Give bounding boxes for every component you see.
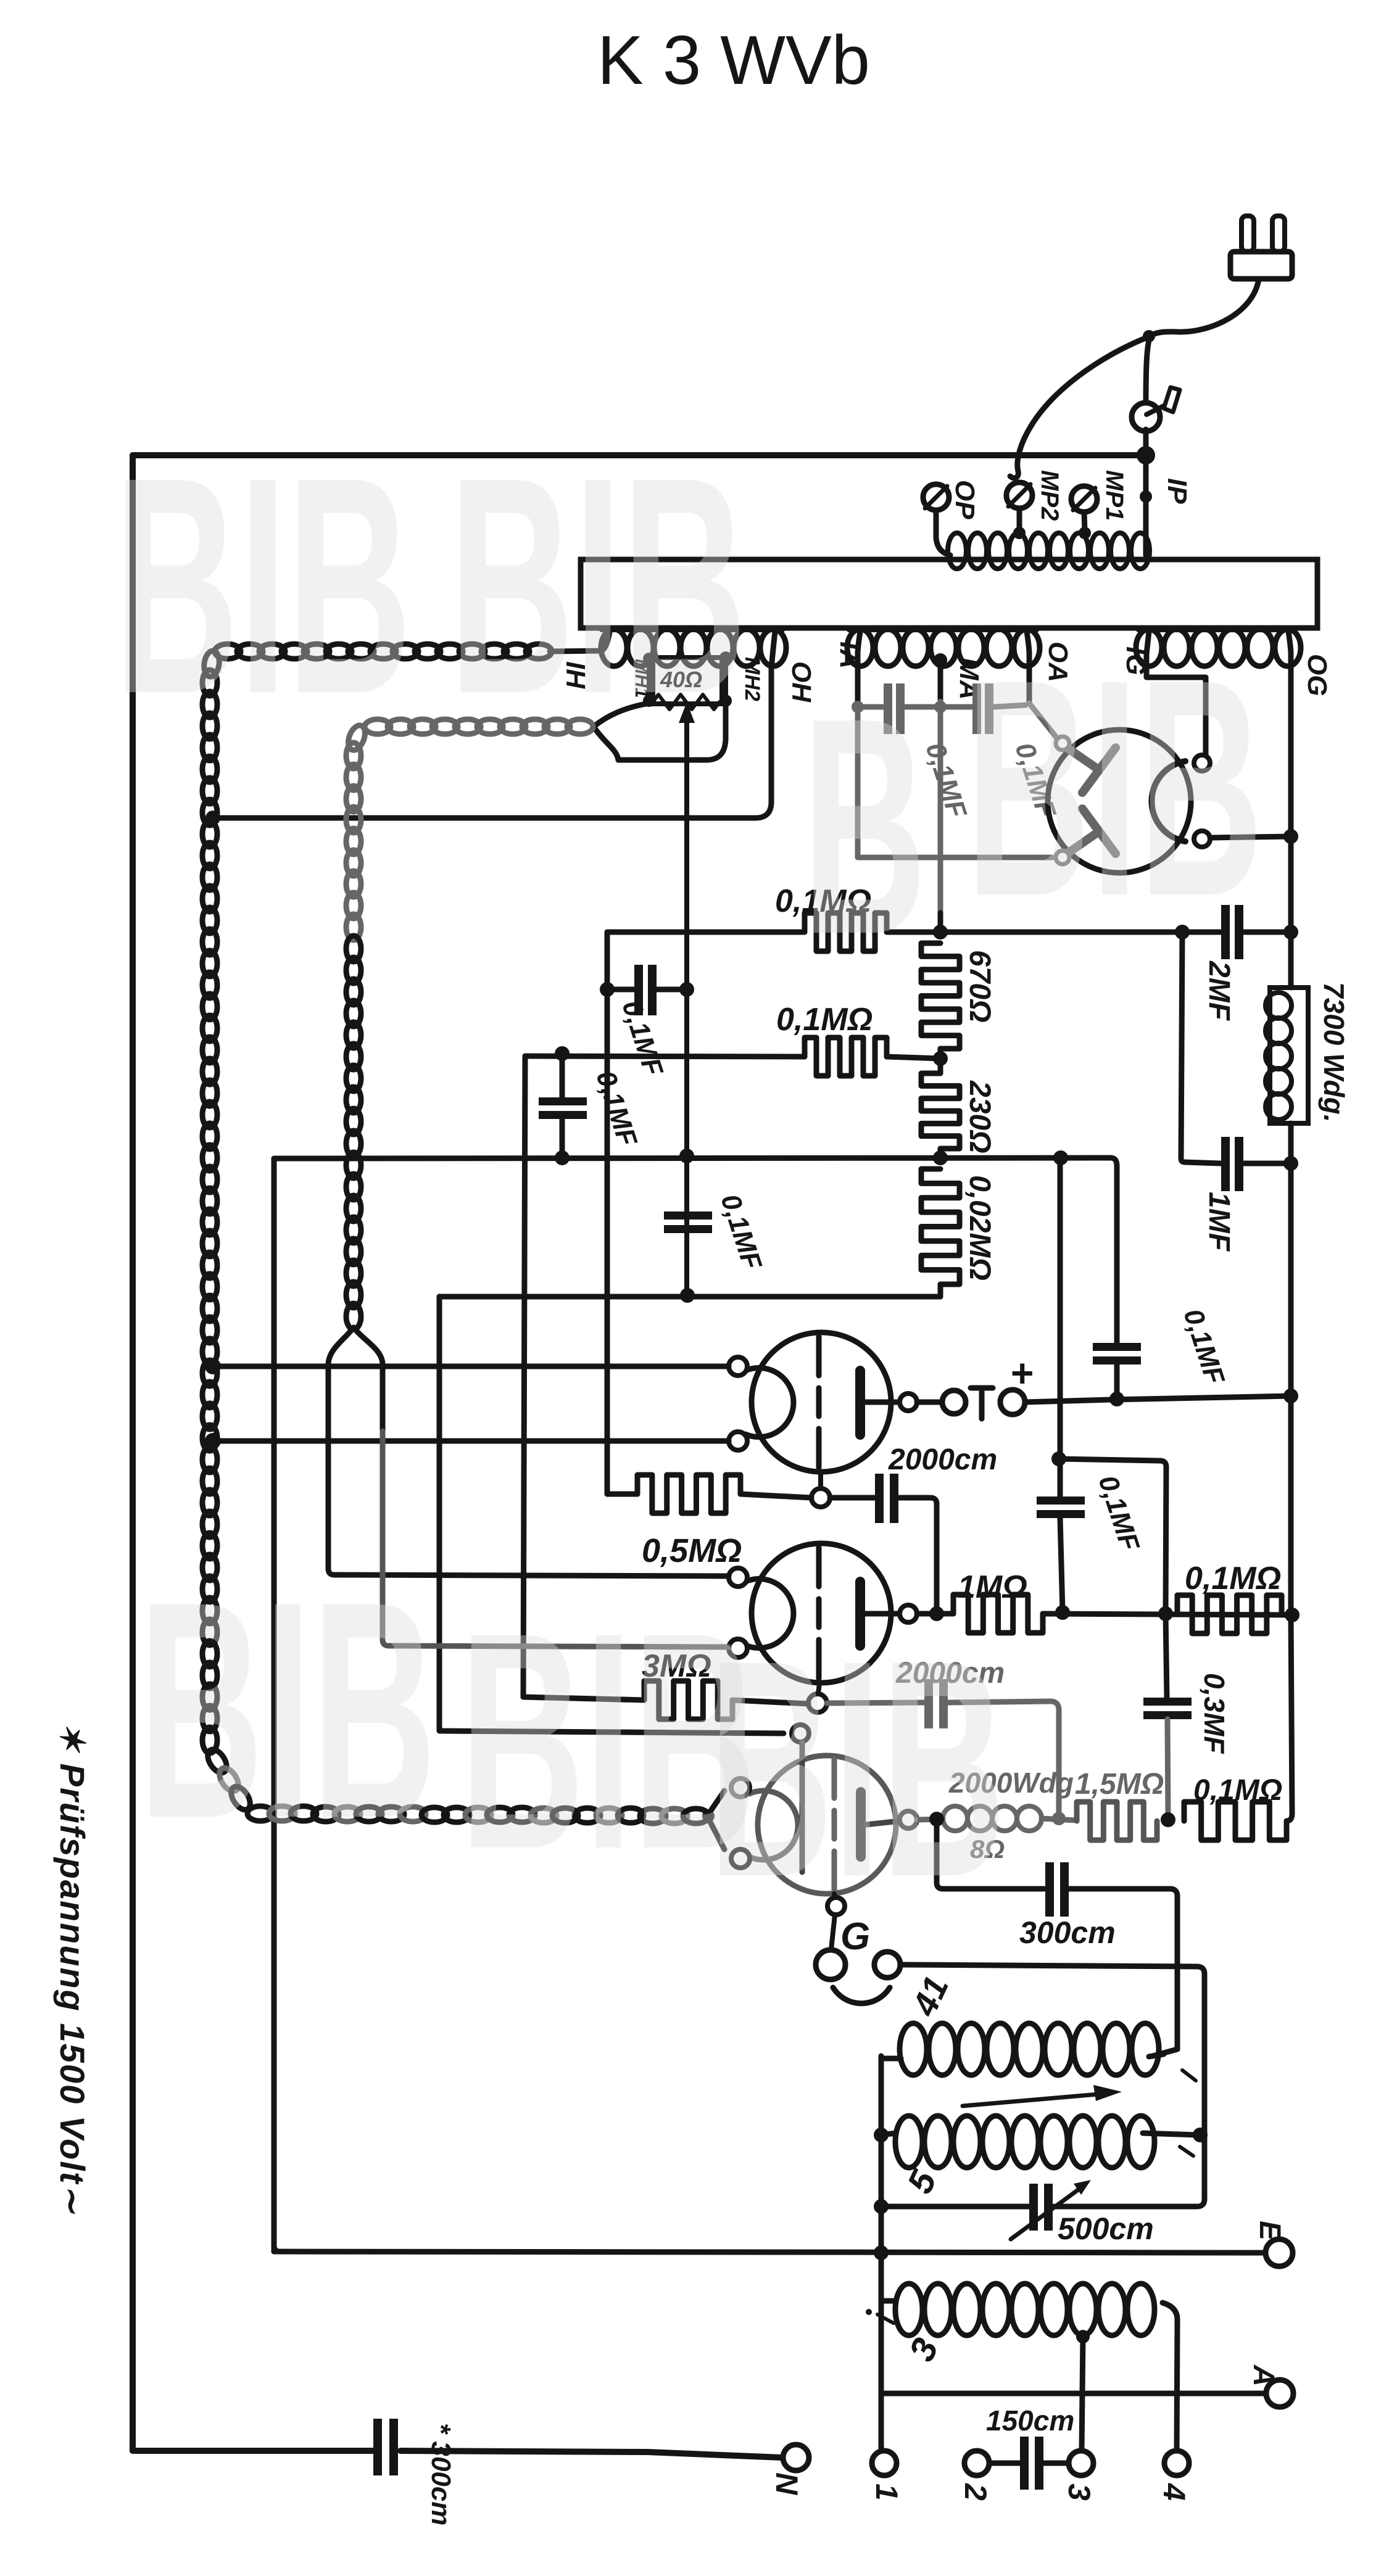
- resistor R 0.1M second: [805, 1038, 887, 1076]
- wire filament bottom to rail: [1210, 836, 1291, 838]
- glyph T +row: [979, 1388, 985, 1419]
- terminal screw OP: [923, 484, 949, 510]
- resistor R 230 vertical: [921, 1073, 960, 1149]
- wire gray cap to corner: [948, 1701, 1059, 1818]
- tube V2 filament terminal upper: [729, 1568, 747, 1587]
- svg-text:BIB: BIB: [449, 413, 747, 758]
- wire 0.02M bottom: [938, 1284, 943, 1297]
- wire 1MF lead right: [1243, 1161, 1291, 1166]
- svg-text:0,1MΩ: 0,1MΩ: [1193, 1774, 1282, 1807]
- node coil5 left: [874, 2128, 889, 2142]
- tube V1 anode terminal: [900, 1393, 917, 1411]
- resistor R 0.1M right lower: [1184, 1802, 1287, 1840]
- wire bus y1877: [274, 1158, 1111, 1158]
- wire coil3 right to terminal 4: [1163, 2303, 1177, 2450]
- tube V2 grid dashes: [816, 1548, 822, 1587]
- tube V2 filament arc: [745, 1579, 794, 1648]
- terminal circle small +row: [942, 1390, 966, 1414]
- wire cap1 lead left: [607, 987, 634, 993]
- wire V1 filament row upper: [213, 1364, 729, 1369]
- tube V1 grid bottom lead: [818, 1472, 823, 1488]
- wire IA lead: [858, 632, 860, 706]
- anode winding coil: [847, 629, 873, 666]
- resistor R 3M: [523, 1697, 644, 1700]
- terminal circle +: [1000, 1390, 1025, 1414]
- tube V3 anode lead: [866, 1821, 900, 1825]
- capacitor C 500cm variable: [1029, 2184, 1038, 2231]
- capacitor C 300cm: [1045, 1862, 1054, 1917]
- svg-text:MP2: MP2: [1036, 470, 1063, 521]
- tube V2 envelope: [752, 1543, 891, 1683]
- wire x444 vertical: [272, 1158, 277, 2252]
- capacitor C 0.1MF wiper column: [664, 1212, 712, 1220]
- tube V3 grid inner line: [800, 1742, 805, 1872]
- terminal screw MP2: [1006, 482, 1032, 508]
- svg-text:230Ω: 230Ω: [963, 1080, 996, 1154]
- fuse F1: [1132, 403, 1160, 431]
- wire branch to x1890: [1059, 1459, 1166, 1614]
- tube V3 grid top terminal: [792, 1725, 809, 1742]
- wire outer border top: [133, 452, 1146, 458]
- wire G to right column: [900, 1965, 1204, 2199]
- wire OA lead: [1027, 632, 1029, 703]
- mains plug body: [1230, 252, 1292, 279]
- heater chain vertical black: [202, 670, 217, 696]
- wire 670-230 link: [938, 1049, 943, 1073]
- wire cap1 lead right: [657, 987, 687, 993]
- svg-text:500cm: 500cm: [1058, 2211, 1154, 2246]
- resistor R 1.5M gray: [1077, 1802, 1157, 1840]
- tube V2 anode lead: [865, 1611, 900, 1617]
- tube V3 grid bottom lead: [834, 1894, 835, 1898]
- wire 2MF lead right: [1243, 930, 1291, 935]
- coil L5: [895, 2116, 922, 2168]
- node MP2 tap: [1013, 527, 1026, 539]
- wire 300cm right: [1069, 1889, 1177, 2055]
- transformer core: [581, 559, 1317, 628]
- wire right rail mid: [1288, 1123, 1294, 1615]
- svg-text:150cm: 150cm: [986, 2405, 1074, 2437]
- wire fuse to border: [1143, 429, 1149, 455]
- svg-text:7300 Wdg.: 7300 Wdg.: [1318, 982, 1350, 1123]
- rheostat wiper arrow: [684, 714, 689, 1295]
- node MP1 tap: [1079, 527, 1091, 539]
- svg-text:1: 1: [869, 2483, 904, 2501]
- node chain V1 lower: [205, 1433, 221, 1449]
- wire gray bus ma-oa: [940, 704, 972, 710]
- wire 0.3MF lower lead gray: [1167, 1719, 1168, 1818]
- coil L3: [895, 2284, 922, 2335]
- wire MA lead black: [938, 660, 943, 701]
- terminal N: [783, 2445, 809, 2471]
- wire IA to lower anode gray: [858, 707, 1052, 857]
- resistor R 0.1M upper: [805, 913, 887, 951]
- tube V2 grid bottom lead: [818, 1683, 819, 1694]
- svg-text:B: B: [802, 653, 927, 998]
- rectifier anode 2 gray: [1067, 832, 1099, 854]
- svg-text:✶ Prüfspannung 1500 Volt∼: ✶ Prüfspannung 1500 Volt∼: [53, 1722, 92, 2215]
- capacitor C 2000cm V1: [875, 1474, 884, 1523]
- wire 2MF lead left: [1182, 930, 1221, 935]
- tube V3 filament arc: [749, 1791, 798, 1860]
- wire MP1 lead: [1084, 512, 1085, 532]
- svg-text:N: N: [769, 2472, 804, 2495]
- rheostat R 40ohm box: [653, 658, 722, 704]
- resistor R 670 vertical: [921, 943, 960, 1049]
- svg-text:BIB: BIB: [966, 615, 1263, 960]
- node bus wiper: [679, 1149, 694, 1163]
- wire IP lead: [1143, 455, 1149, 555]
- tube V3 filament terminal lower: [731, 1849, 750, 1868]
- node MH2 top: [719, 651, 732, 664]
- node IP tap: [1140, 490, 1152, 503]
- wire 150cm leads: [989, 2461, 1020, 2466]
- resistor R 0.1M right upper: [1177, 1595, 1282, 1633]
- heater chain horizontal to V3: [247, 1806, 273, 1821]
- rectifier filament terminal top: [1194, 755, 1210, 771]
- capacitor C 0.3MF: [1143, 1698, 1192, 1706]
- wire anode2 lead to 1M: [917, 1611, 953, 1617]
- capacitor C 0.1MF x1810: [1093, 1343, 1141, 1351]
- wire anode to + terminals: [917, 1400, 942, 1405]
- node coil3 tap: [1076, 2330, 1090, 2343]
- wire MP2 lead: [1017, 508, 1022, 532]
- coupling dash 5: [1180, 2147, 1193, 2156]
- G jack arc: [833, 1988, 890, 2004]
- wire outer border bottom left segment: [133, 2448, 377, 2454]
- node IA gray: [852, 701, 864, 713]
- svg-text:MP1: MP1: [1101, 470, 1128, 521]
- wire V2 filament row lower: [383, 1431, 729, 1647]
- node 500cm left: [874, 2199, 889, 2214]
- wire cap2 bottom lead: [560, 1119, 565, 1158]
- node x1890 on 1M wire: [1158, 1606, 1173, 1621]
- terminal E: [1266, 2239, 1293, 2266]
- tube V3 filament terminal upper: [731, 1778, 750, 1797]
- rectifier tube U1 envelope: [1048, 730, 1191, 873]
- node cap2 top: [555, 1046, 570, 1061]
- gray chain vertical lower: [346, 936, 361, 962]
- terminal 3: [1069, 2451, 1093, 2475]
- svg-text:K 3 WVb: K 3 WVb: [597, 22, 870, 99]
- wire MA lead lower black: [938, 913, 943, 932]
- node bus 230-002: [933, 1150, 948, 1165]
- svg-text:2000cm: 2000cm: [888, 1443, 997, 1476]
- svg-text:2MF: 2MF: [1203, 960, 1235, 1022]
- wire tap to terminal 3: [1082, 2337, 1083, 2450]
- node anode-300cm junction: [929, 1812, 944, 1827]
- wire V3 grid to G: [831, 1915, 835, 1949]
- gray chain horizontal: [365, 719, 391, 734]
- capacitor C 0.1MF x1718: [1037, 1496, 1085, 1505]
- capacitor C* 300cm bottom: [373, 2419, 382, 2475]
- heater chain bend black: [204, 1746, 230, 1776]
- coupling dashdot 3: [866, 2309, 872, 2315]
- node rail 0.1M: [1285, 1608, 1300, 1622]
- wire bus y2102: [439, 1294, 940, 1300]
- mains plug prong left: [1242, 216, 1254, 252]
- tube V2 anode bar: [855, 1582, 865, 1646]
- node gray junction x1716: [1052, 1812, 1066, 1825]
- choke L 7300Wdg coil: [1266, 993, 1291, 1018]
- tube V1 grid terminal: [811, 1488, 830, 1507]
- node rail y2263: [1283, 1389, 1298, 1403]
- wire V2 filament row lower arch: [354, 1327, 383, 1431]
- svg-text:3: 3: [1062, 2483, 1096, 2501]
- resistor R 0.5M: [607, 1492, 637, 1497]
- capacitor C 2MF: [1221, 905, 1230, 959]
- wire MH1 tap: [647, 659, 652, 699]
- wire 1MF lead left: [1181, 1158, 1221, 1163]
- wire 230 to bus: [938, 1149, 943, 1158]
- svg-text:0,02MΩ: 0,02MΩ: [963, 1175, 996, 1281]
- svg-text:BIB: BIB: [114, 413, 412, 758]
- wire 300cm left: [937, 1819, 1044, 1889]
- capacitor C 0.1MF left column: [539, 1097, 587, 1105]
- node IP on border: [1137, 446, 1155, 464]
- wire V2 grid gray right: [827, 1703, 924, 1703]
- wire x1718 vertical upper: [1058, 1158, 1063, 1459]
- node rail 2MF: [1283, 925, 1298, 939]
- tube V1 envelope: [752, 1332, 891, 1472]
- svg-text:OP: OP: [950, 480, 980, 519]
- tube V1 anode lead: [865, 1400, 900, 1405]
- wire A row: [881, 2391, 1266, 2396]
- tube V1 anode bar: [855, 1371, 865, 1435]
- node bus cap2: [555, 1150, 570, 1165]
- terminal G right: [874, 1952, 900, 1978]
- wire IH lead: [550, 632, 610, 651]
- wire OG lead: [1288, 632, 1291, 836]
- tube V1 grid dashes: [816, 1337, 822, 1376]
- choke L 2000Wdg gray: [917, 1819, 943, 1820]
- svg-text:4: 4: [1157, 2483, 1192, 2501]
- wire bus B+ y1511: [607, 930, 805, 935]
- wire gray bus ia-ma: [858, 704, 884, 710]
- wire 0.3MF top lead: [1166, 1614, 1167, 1698]
- wire second R to junction: [887, 1057, 940, 1059]
- wire x1810 lower lead: [1114, 1364, 1120, 1399]
- capacitor C 0.1MF ma-oa gray: [972, 683, 981, 734]
- rectifier winding coil: [1136, 629, 1162, 666]
- svg-text:0,5MΩ: 0,5MΩ: [642, 1532, 742, 1569]
- node cap1 right: [679, 982, 694, 997]
- wire OA diag to upper anode gray: [1029, 703, 1058, 739]
- wire x712 vertical: [439, 1297, 784, 1733]
- tube V3 anode terminal: [900, 1811, 917, 1828]
- svg-text:670Ω: 670Ω: [963, 950, 996, 1023]
- svg-text:BIB: BIB: [139, 1537, 436, 1882]
- wire mains cord: [1150, 279, 1259, 336]
- rectifier filament arc: [1151, 761, 1185, 841]
- tube V2 filament terminal lower: [729, 1639, 747, 1657]
- mains plug prong right: [1272, 216, 1285, 252]
- svg-text:1,5MΩ: 1,5MΩ: [1075, 1768, 1164, 1801]
- terminal A: [1266, 2380, 1293, 2407]
- wire 1M to rail: [1043, 1614, 1291, 1615]
- capacitor C 150cm: [1020, 2437, 1029, 2490]
- rheostat R 40ohm element: [653, 695, 719, 709]
- svg-text:0,3MF: 0,3MF: [1198, 1673, 1230, 1754]
- rectifier anode 1 gray: [1067, 748, 1099, 770]
- wire + to rail: [1025, 1396, 1291, 1402]
- chain fork to V3 filament: [707, 1791, 724, 1816]
- wire IG lead: [1146, 632, 1206, 755]
- wire cap2 top lead: [560, 1056, 565, 1097]
- wire x851 vertical: [523, 1056, 525, 1697]
- resistor R 1M: [953, 1595, 1043, 1633]
- capacitor C 0.1MF ia-ma gray: [884, 683, 892, 734]
- choke L 7300Wdg box: [1270, 988, 1308, 1123]
- wire x1718 cap leads: [1058, 1459, 1063, 1496]
- svg-text:+: +: [1011, 1351, 1034, 1395]
- coupling dash 41: [1182, 2070, 1196, 2081]
- wire V1 filament row lower: [213, 1439, 729, 1444]
- node OH joins heater chain: [205, 811, 220, 825]
- node chain V1 upper: [205, 1358, 221, 1374]
- left column x1428: [879, 2056, 884, 2451]
- svg-text:A: A: [1247, 2364, 1280, 2387]
- coil L41: [900, 2023, 927, 2075]
- tube V3 anode bar: [856, 1792, 866, 1857]
- wire bus y1712: [525, 1056, 805, 1057]
- arrow 500cm variable: [1011, 2185, 1085, 2239]
- node bus x1718: [1053, 1150, 1068, 1165]
- wire 2000cm leads: [830, 1495, 875, 1501]
- gray chain corner: [345, 723, 368, 753]
- node bus cap3: [680, 1288, 695, 1303]
- tube V2 anode terminal: [900, 1605, 917, 1622]
- wire x984 vertical: [605, 932, 610, 1494]
- primary winding coil: [948, 533, 966, 569]
- node MA gray: [934, 701, 947, 713]
- node cap1 left: [600, 982, 615, 997]
- arrow between coils: [963, 2094, 1105, 2106]
- tube V3 envelope: [758, 1756, 896, 1894]
- node MA tap: [934, 653, 947, 667]
- svg-text:IP: IP: [1162, 478, 1192, 504]
- wire MA lead gray: [938, 701, 943, 913]
- wire right rail upper: [1288, 669, 1294, 988]
- heater winding coil: [601, 629, 627, 666]
- wire OH lead down: [213, 632, 775, 818]
- node x1718 branch: [1051, 1451, 1066, 1466]
- svg-text:0,1MΩ: 0,1MΩ: [1185, 1561, 1281, 1596]
- node coil5 right: [1193, 2128, 1208, 2142]
- tube V3 grid dashes: [832, 1759, 837, 1798]
- node cord junction: [1143, 330, 1155, 342]
- wire outer border left: [130, 455, 136, 2451]
- node bus-2MF junction: [1175, 925, 1190, 939]
- node MH1 top: [643, 653, 655, 665]
- wire wiper col lower: [684, 1233, 689, 1297]
- svg-text:OG: OG: [1302, 654, 1332, 696]
- wire E row: [274, 2252, 1266, 2253]
- node 1.5M-0.1M junction: [1161, 1812, 1175, 1827]
- svg-text:E: E: [1253, 2221, 1286, 2242]
- wire 1MF feeder vertical: [1181, 932, 1182, 1158]
- svg-text:2: 2: [958, 2483, 993, 2501]
- terminal screw MP1: [1071, 486, 1097, 512]
- wire V2 filament row upper: [328, 1327, 729, 1576]
- capacitor C 2000cm gray: [924, 1679, 933, 1728]
- terminal G left: [816, 1950, 845, 1979]
- node MA-670 junction: [933, 925, 948, 939]
- heater chain horizontal black: [215, 644, 241, 659]
- wire 0.1M lower to rail: [1287, 1615, 1292, 1821]
- gray chain vertical upper: [346, 743, 361, 769]
- node rail filament: [1283, 829, 1298, 844]
- wire bottom to N terminal: [400, 2451, 782, 2458]
- terminal 4: [1164, 2451, 1189, 2475]
- wire wiper col upper: [684, 992, 689, 1212]
- terminal 1: [872, 2451, 897, 2475]
- svg-text:1MF: 1MF: [1203, 1192, 1235, 1252]
- capacitor C 0.1MF mid link: [634, 965, 643, 1015]
- wire cord branch to IP: [1146, 336, 1150, 405]
- tube V3 bottom terminal: [827, 1897, 845, 1915]
- rectifier anode 1 terminal: [1056, 737, 1069, 750]
- wire 500cm row: [1054, 2199, 1204, 2207]
- wire MH2 tap: [723, 658, 728, 699]
- node rail 1MF: [1283, 1156, 1298, 1171]
- tube V2 grid terminal: [808, 1694, 827, 1712]
- resistor R 0.02M vertical: [921, 1169, 960, 1284]
- node E row x1428: [874, 2245, 889, 2260]
- node 670-230 junction: [933, 1051, 948, 1066]
- rectifier filament terminal bottom: [1194, 831, 1210, 847]
- node MH2 bottom: [719, 695, 732, 707]
- node MH1 bottom: [643, 695, 655, 707]
- corner x444 bottom: [274, 2245, 280, 2252]
- tube V1 filament arc: [745, 1368, 794, 1437]
- svg-text:BIB: BIB: [708, 1596, 1006, 1941]
- node 2000cm-anode junction: [929, 1606, 944, 1621]
- terminal 2: [964, 2451, 989, 2475]
- node x1810 on +wire: [1109, 1392, 1124, 1406]
- wire cord branch to MP2: [1010, 336, 1150, 478]
- rectifier anode 2 terminal: [1056, 851, 1069, 864]
- capacitor C 1MF: [1221, 1137, 1230, 1191]
- svg-text:0,1MΩ: 0,1MΩ: [776, 1002, 873, 1038]
- tube V1 filament terminal upper: [729, 1357, 747, 1376]
- wire OP lead: [936, 510, 950, 555]
- node 1M junction: [1055, 1605, 1070, 1620]
- svg-text:* 300cm: * 300cm: [426, 2423, 456, 2525]
- tube V1 filament terminal lower: [729, 1432, 747, 1450]
- wire MH tap balloon: [594, 703, 726, 760]
- heater chain corner black: [202, 650, 221, 678]
- svg-text:300cm: 300cm: [1019, 1915, 1116, 1950]
